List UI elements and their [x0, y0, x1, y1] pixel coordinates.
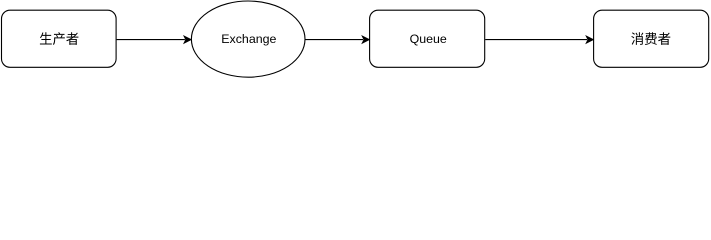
label 生产者 — [40, 32, 79, 45]
label Exchange — [221, 32, 276, 46]
node 生产者 (producer) box — [2, 10, 117, 67]
arrowhead into consumer — [586, 36, 593, 43]
svg-text:Exchange: Exchange — [221, 32, 276, 46]
label 消费者 — [631, 32, 670, 45]
wire exchange to queue — [305, 39, 363, 41]
arrowhead into queue — [362, 36, 369, 43]
wire queue to consumer — [485, 39, 587, 41]
arrowhead into exchange — [184, 36, 191, 43]
node 消费者 (consumer) box — [594, 10, 709, 67]
label Queue — [410, 32, 447, 46]
svg-text:Queue: Queue — [410, 32, 447, 46]
wire producer to exchange — [117, 39, 185, 41]
node Queue box — [370, 10, 485, 67]
node Exchange ellipse — [191, 1, 305, 77]
